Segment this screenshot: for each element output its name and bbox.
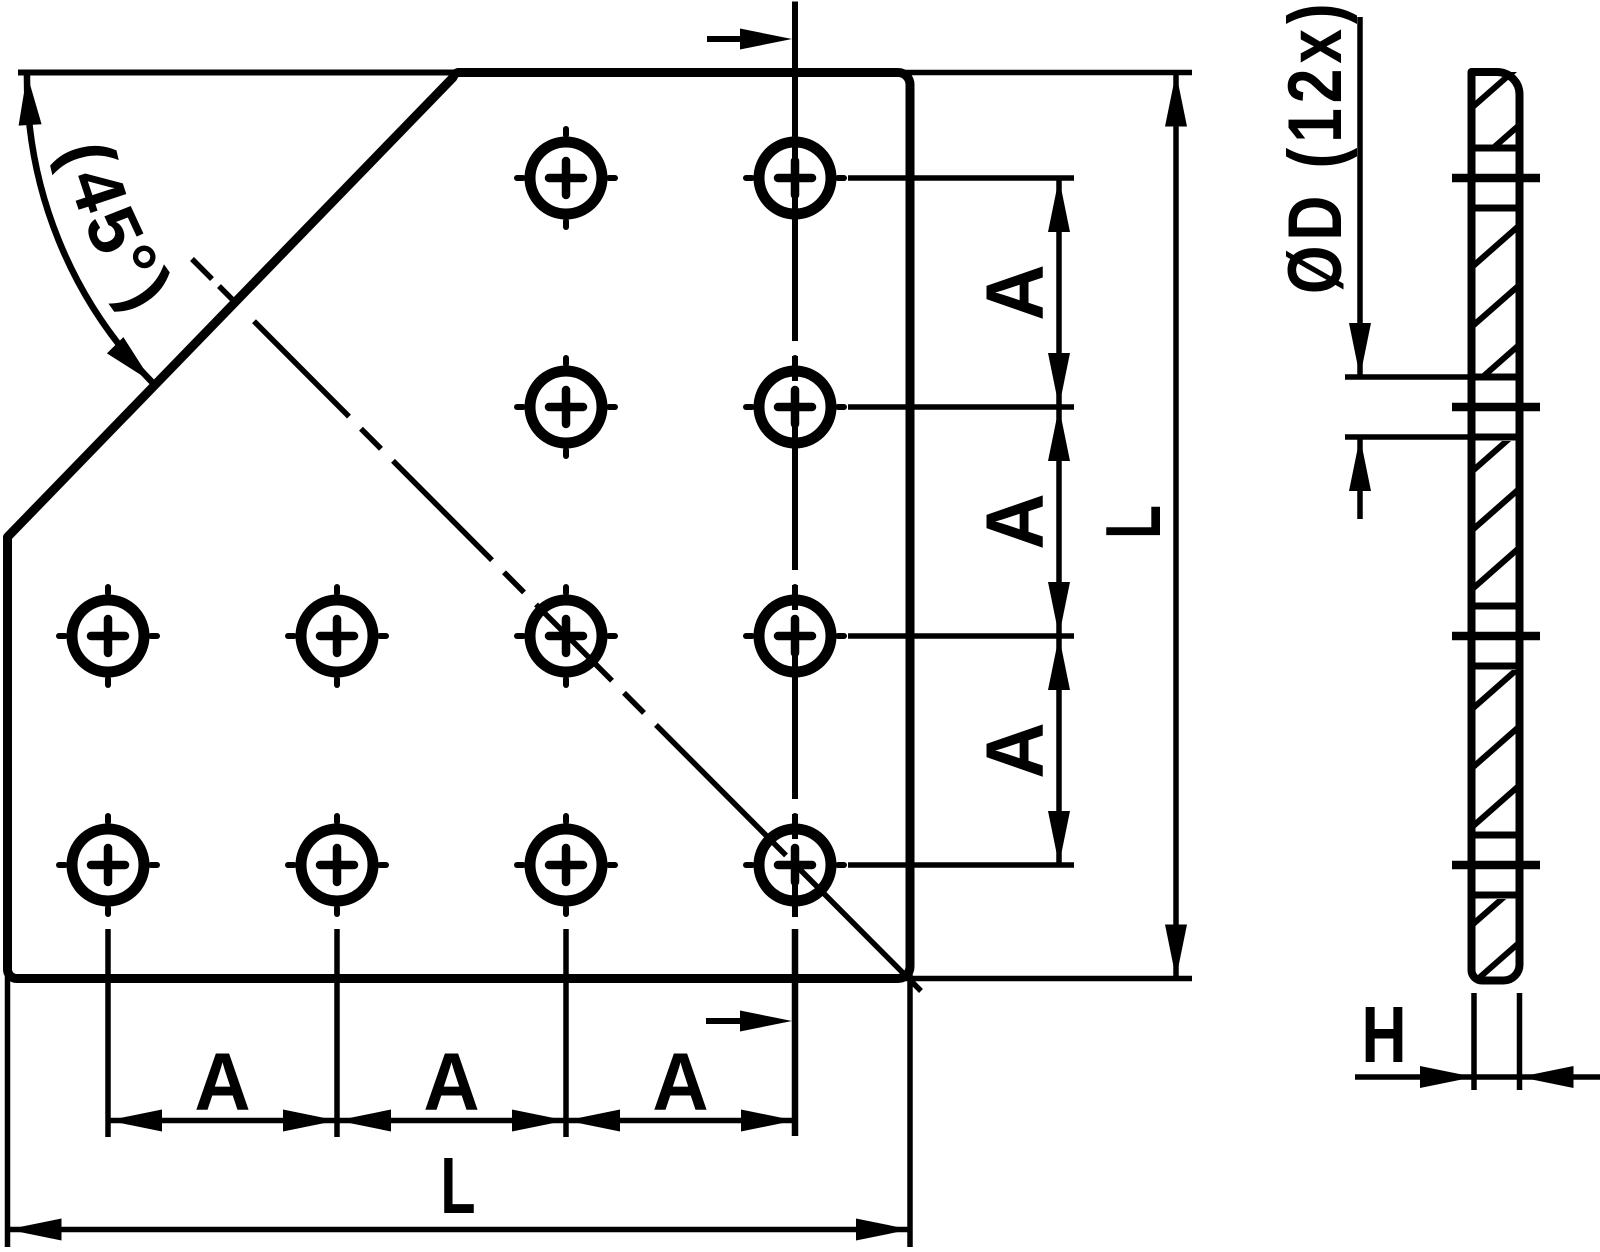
extension lines for right A chain — [848, 178, 1074, 865]
extension line bottom for L (right) — [896, 976, 1192, 982]
svg-text:A: A — [194, 1036, 250, 1127]
angular dimension arc (45 deg) — [27, 73, 152, 382]
arrowheads H — [1420, 1066, 1474, 1088]
dimension line A chain (right) — [1056, 178, 1062, 865]
dimension line L (bottom) — [8, 1227, 911, 1233]
hole 10 at (337,865) with crosshair — [288, 816, 386, 914]
plate outline (front view, chamfered corner plate) — [8, 73, 911, 979]
side view hole 4: edge lines and centerline tick — [1452, 835, 1540, 895]
label (45deg) along arc — [60, 136, 150, 333]
svg-text:A: A — [969, 264, 1060, 320]
arrowheads right A chain — [1048, 178, 1070, 865]
hole 3 at (566,407) with crosshair — [517, 358, 615, 456]
svg-text:(45°): (45°) — [46, 134, 191, 329]
extension line top for L (right) — [896, 70, 1192, 76]
arc arrowhead bottom — [107, 337, 152, 382]
side view hole 2: edge lines and centerline tick — [1452, 377, 1540, 437]
extension lines below bottom holes — [108, 929, 566, 1137]
hole 9 at (108,865) with crosshair — [59, 816, 157, 914]
side view hole 1: edge lines and centerline tick — [1452, 148, 1540, 208]
extension line left for bottom L — [5, 968, 11, 1247]
hole 2 at (795,178) with crosshair — [746, 129, 844, 227]
svg-text:ØD (12x): ØD (12x) — [1272, 0, 1357, 294]
extension lines for hole diameter D — [1345, 374, 1470, 380]
hole 8 at (795,636) with crosshair — [746, 587, 844, 685]
arrowheads D — [1349, 323, 1371, 377]
extension lines for H — [1471, 993, 1477, 1090]
side view hole 3: edge lines and centerline tick — [1452, 606, 1540, 666]
svg-text:L: L — [1091, 505, 1177, 539]
svg-text:L: L — [440, 1141, 475, 1231]
svg-text:A: A — [652, 1036, 708, 1127]
svg-text:A: A — [423, 1036, 479, 1127]
hole 6 at (337,636) with crosshair — [288, 587, 386, 685]
section arrow (bottom) — [706, 1018, 748, 1024]
dimension line D (lower part) — [1357, 437, 1363, 519]
hole 4 at (795,407) with crosshair — [746, 358, 844, 456]
arrowheads bottom A chain — [108, 1110, 795, 1132]
svg-text:A: A — [969, 722, 1060, 778]
diagonal dash-dot symmetry line (45 deg) — [192, 259, 921, 991]
svg-text:H: H — [1361, 991, 1406, 1080]
section arrow (top) — [707, 36, 748, 42]
hole 5 at (108,636) with crosshair — [59, 587, 157, 685]
extension line right for bottom L — [907, 965, 913, 1247]
hole 7 at (566,636) with crosshair — [517, 587, 615, 685]
arrowheads L bottom — [8, 1219, 62, 1241]
dimension line D (upper part) — [1357, 17, 1363, 377]
dimension line L (right vertical) — [1173, 73, 1179, 979]
vertical centerline / section axis x=795 — [792, 2, 798, 1137]
hole 11 at (566,865) with crosshair — [517, 816, 615, 914]
side view plate outline — [1472, 72, 1520, 981]
dimension line H — [1355, 1074, 1600, 1080]
arrowheads L vertical — [1165, 73, 1187, 127]
hole 1 at (566,178) with crosshair — [517, 129, 615, 227]
top edge extension line to the left — [18, 70, 458, 76]
svg-text:A: A — [969, 493, 1060, 549]
dimension line A chain (bottom) — [108, 1118, 795, 1124]
hole 12 at (795,865) with crosshair — [746, 816, 844, 914]
arc arrowhead top — [19, 74, 42, 126]
